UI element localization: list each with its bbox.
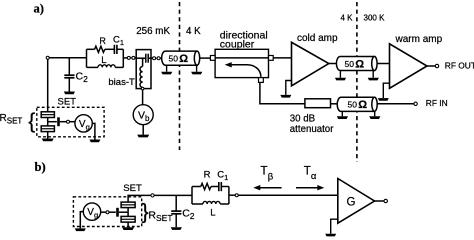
tunnel junction 1 (panel a)	[41, 112, 54, 118]
ground tap (G amp)	[331, 219, 338, 234]
ground tap (cold amp)	[286, 81, 292, 95]
svg-text:R: R	[99, 36, 106, 46]
directional coupler box	[215, 49, 268, 77]
resistor R (panel a)	[95, 46, 105, 52]
svg-text:L: L	[210, 208, 215, 219]
wire Vg to ground (panel a)	[92, 123, 95, 139]
ground (cyl1 right leg)	[191, 72, 202, 75]
svg-text:L: L	[101, 55, 106, 66]
wire warm amp to RF OUT	[427, 65, 435, 67]
wire cyl1 to coupler	[200, 57, 211, 59]
bias-T box	[136, 50, 151, 89]
node circle after SET (panel b)	[151, 194, 154, 197]
capacitor C1 (panel a)	[114, 45, 117, 54]
tunnel junction 2 (panel b)	[121, 216, 135, 222]
connector circles left of bias-T	[127, 56, 130, 59]
wire Vg to ground (panel b)	[80, 212, 83, 229]
inductor L (panel a)	[98, 65, 115, 68]
wire bias-T to Vb	[142, 90, 144, 105]
svg-text:RF IN: RF IN	[426, 98, 448, 108]
attenuator box 30dB	[305, 99, 331, 108]
wire through bias-T	[136, 57, 145, 59]
tunnel junction 1 (panel b)	[121, 202, 135, 208]
wire tank to node (panel b)	[229, 194, 235, 196]
coupler right port	[269, 56, 274, 61]
ground (warm amp)	[378, 98, 389, 101]
ground tap (warm amp)	[383, 83, 389, 98]
terminal RF IN	[414, 102, 417, 105]
ground (SET panel b)	[122, 227, 134, 230]
wire Vb to ground	[142, 125, 144, 135]
wire: node to tank circuit	[49, 57, 86, 59]
50 ohm terminator 1 (cold, 256mK)	[162, 51, 200, 72]
ground (cyl3 left leg)	[337, 116, 348, 119]
coupler arrow (coupled path)	[231, 65, 261, 77]
gate node circle (panel b)	[106, 211, 109, 214]
terminal RF OUT	[435, 64, 438, 67]
temperature boundary dashed line 256mK/4K	[179, 2, 181, 150]
svg-text:SET: SET	[123, 183, 142, 194]
arrow T alpha (right)	[296, 187, 319, 189]
op-amp: cold amp triangle	[292, 42, 329, 86]
wire node to G amp	[238, 194, 338, 196]
wire junction 2 to ground (panel b)	[127, 222, 129, 227]
ground (Vb)	[137, 135, 149, 138]
coupler bottom port	[259, 78, 264, 83]
ground (Vg panel b)	[75, 228, 86, 231]
wire between junctions	[47, 118, 49, 126]
svg-text:β: β	[268, 172, 274, 183]
tank circuit box (panel b)	[192, 187, 229, 205]
inductor L (panel b)	[203, 201, 220, 204]
svg-text:4 K: 4 K	[186, 26, 201, 37]
arrow T beta (left)	[259, 187, 282, 189]
capacitor C1 (panel b)	[219, 182, 222, 191]
capacitor C2 (panel a)	[64, 58, 74, 92]
wire cyl3 to attenuator	[331, 103, 338, 105]
svg-text:cold amp: cold amp	[297, 33, 338, 44]
ground (cyl1 left leg)	[161, 72, 172, 75]
gate node circle (panel a)	[67, 120, 70, 123]
svg-text:a): a)	[34, 2, 45, 16]
wire node to tank (panel b)	[154, 194, 192, 196]
50 ohm terminator 3 (RF IN line)	[337, 97, 377, 116]
node: SET drain node (top left)	[46, 56, 49, 59]
ground (Vg panel a)	[89, 140, 100, 143]
svg-text:G: G	[347, 197, 356, 209]
wire attenuator to coupler bottom port	[260, 82, 305, 103]
tank circuit box (panel a): R+C1 parallel L	[87, 49, 124, 67]
voltage source Vg (panel a)	[75, 115, 92, 132]
capacitor in bias-T	[145, 54, 147, 63]
svg-text:bias-T: bias-T	[108, 77, 135, 88]
svg-text:Ω: Ω	[355, 58, 364, 70]
wire RF IN to cyl3	[377, 103, 414, 105]
wire junction up and right (panel b)	[128, 195, 151, 202]
svg-text:warm amp: warm amp	[395, 34, 443, 45]
op-amp: G amplifier triangle	[338, 179, 375, 224]
ground (cyl2 right leg)	[368, 78, 379, 81]
svg-text:Ω: Ω	[358, 99, 367, 111]
node at bias-T bottom	[141, 87, 144, 90]
capacitor C2 (panel b)	[171, 195, 181, 227]
coupler through line	[215, 57, 268, 59]
gate wire (panel b)	[101, 211, 106, 213]
svg-text:300 K: 300 K	[364, 14, 386, 23]
gate capacitor bar (panel b)	[116, 208, 119, 217]
ground (cyl3 right leg)	[369, 116, 380, 119]
gate wire (panel a)	[48, 121, 57, 123]
svg-text:4 K: 4 K	[340, 14, 353, 23]
wire cyl2 to warm amp	[377, 63, 389, 65]
svg-text:50: 50	[348, 100, 358, 110]
svg-text:SET: SET	[58, 97, 77, 108]
svg-text:{: {	[28, 110, 35, 133]
wire between junctions (panel b)	[127, 208, 129, 217]
connector circles right of bias-T	[151, 57, 153, 59]
svg-text:Ω: Ω	[179, 53, 188, 65]
svg-text:attenuator: attenuator	[290, 124, 334, 135]
voltage source Vb	[133, 105, 153, 125]
svg-text:RF OUT: RF OUT	[445, 61, 474, 71]
wire cold amp to cyl2	[329, 63, 337, 65]
terminal output (panel b)	[384, 199, 387, 202]
temperature boundary dashed line 4K/300K	[356, 2, 358, 162]
resistor R (panel b)	[201, 183, 211, 189]
ground (cold amp)	[280, 95, 291, 98]
wire G amp to output	[375, 200, 385, 202]
svg-text:coupler: coupler	[220, 39, 255, 51]
svg-text:R: R	[204, 170, 211, 181]
svg-text:T: T	[261, 166, 268, 178]
ground (C2 panel a)	[64, 92, 75, 95]
ground (C2 panel b)	[171, 227, 182, 230]
svg-text:T: T	[304, 166, 311, 178]
gate capacitor bar (panel a)	[57, 117, 60, 126]
svg-text:50: 50	[169, 54, 179, 64]
SET dashed box (panel a)	[37, 107, 104, 137]
wire junction 2 to ground	[47, 132, 49, 139]
svg-text:50: 50	[345, 59, 355, 69]
svg-text:b): b)	[35, 160, 46, 174]
ground (cyl2 left leg)	[335, 78, 346, 81]
op-amp: warm amp triangle	[390, 44, 428, 89]
dashed box (panel b)	[73, 197, 141, 227]
tunnel junction 2 (panel a)	[41, 126, 54, 132]
svg-text:30 dB: 30 dB	[290, 113, 315, 124]
wire: node down to SET	[47, 59, 49, 112]
wire coupler to cold amp	[273, 57, 291, 59]
ground (SET panel a)	[42, 139, 54, 142]
node circle (panel b output)	[235, 194, 238, 197]
wire: tank to connector	[123, 57, 127, 59]
svg-text:α: α	[311, 171, 317, 182]
ground (G amp)	[325, 234, 336, 237]
50 ohm terminator 2 (4K)	[336, 57, 377, 78]
coupler left port	[210, 56, 215, 61]
inductor in bias-T (vertical coil)	[142, 58, 144, 66]
voltage source Vg (panel b)	[83, 203, 100, 220]
svg-text:256 mK: 256 mK	[136, 26, 170, 37]
